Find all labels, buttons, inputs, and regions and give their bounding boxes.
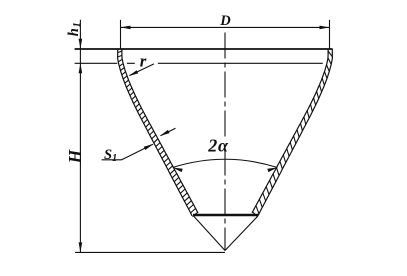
svg-text:D: D bbox=[219, 13, 231, 29]
svg-text:r: r bbox=[140, 51, 147, 70]
cone right wall (hatched thin section) bbox=[258, 49, 333, 216]
apex construction line right bbox=[225, 216, 258, 250]
vertical center line (dash-dot) bbox=[224, 33, 226, 251]
h1 bottom / H top arrow bbox=[79, 63, 83, 73]
r leader line bbox=[130, 64, 154, 76]
2-alpha angle arc bbox=[173, 159, 278, 167]
D dimension extension line left bbox=[120, 20, 122, 49]
svg-text:h1: h1 bbox=[66, 22, 83, 36]
svg-text:S1: S1 bbox=[104, 147, 117, 164]
h1 / H dimension vertical line bbox=[79, 20, 81, 253]
svg-text:2α: 2α bbox=[207, 136, 229, 156]
wall thickness arrow (inner side) bbox=[161, 128, 176, 136]
D dimension extension line right bbox=[329, 20, 331, 49]
bottom outlet thick line bbox=[193, 214, 259, 217]
cone left wall (hatched thin section) bbox=[118, 49, 193, 216]
svg-text:H: H bbox=[65, 148, 85, 164]
label 2alpha bbox=[205, 137, 233, 152]
top rim edge line bbox=[75, 48, 333, 50]
apex construction line left bbox=[194, 216, 225, 250]
D dimension line bbox=[121, 26, 330, 28]
S1 underline + leader arrow to wall outer face bbox=[102, 144, 153, 160]
h1 top arrow bbox=[79, 39, 83, 49]
H bottom arrow bbox=[79, 242, 83, 252]
bottom extension line at apex level bbox=[75, 251, 225, 253]
tangent level line (h1 bottom / r level) bbox=[75, 62, 323, 64]
